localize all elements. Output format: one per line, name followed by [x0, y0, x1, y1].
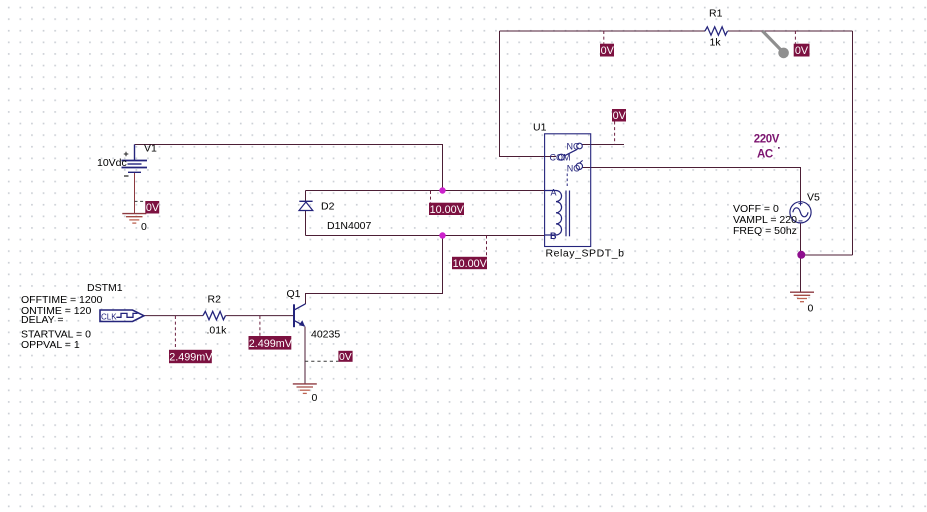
svg-text:V1: V1 [144, 143, 157, 155]
Q1 emitter arrow [299, 320, 305, 326]
wire D2 top horizontal to relay A [306, 190, 545, 192]
svg-text:0: 0 [808, 303, 814, 315]
voltage label 0V at V1 ground [135, 201, 160, 214]
wire node down from bottom horizontal [306, 236, 443, 305]
wire R2 to Q1 base [226, 315, 294, 317]
svg-text:0: 0 [312, 392, 318, 404]
wire V5 bottom to ground [800, 223, 802, 292]
wire right vertical [852, 31, 854, 255]
svg-text:D1N4007: D1N4007 [327, 220, 372, 232]
svg-text:B: B [550, 231, 557, 241]
wire D2 bottom horizontal to relay B [306, 235, 545, 237]
relay armature dashed link [566, 174, 568, 187]
V5 attributes [733, 203, 797, 237]
ground 0 under V1 [122, 214, 146, 224]
relay switch lever [565, 149, 578, 156]
wire DSTM1 to R2 [144, 315, 203, 317]
transistor Q1 [294, 304, 306, 327]
voltage label 2.499mV right [249, 316, 293, 350]
wire bottom right horizontal to V5 node [802, 254, 853, 256]
svg-text:A: A [551, 188, 557, 198]
junction node dot (443,235) [439, 232, 445, 238]
svg-text:DELAY =: DELAY = [21, 314, 64, 326]
svg-text:OFFTIME = 1200: OFFTIME = 1200 [21, 294, 103, 306]
wire V1 bottom to ground [134, 173, 136, 214]
junction node dot (443,190) [439, 187, 445, 193]
ground 0 under Q1 [293, 384, 317, 394]
relay NC contact [567, 141, 583, 151]
probe cursor [763, 31, 789, 58]
voltage label 10.00V lower [452, 236, 488, 270]
svg-text:2.499mV: 2.499mV [249, 338, 293, 350]
wire top horizontal right of R1 [728, 30, 853, 32]
svg-text:220V: 220V [754, 133, 780, 145]
svg-text:NC: NC [567, 141, 580, 151]
svg-text:U1: U1 [533, 122, 547, 134]
svg-text:.01k: .01k [207, 325, 228, 337]
svg-text:V5: V5 [807, 191, 820, 203]
battery V1 [122, 145, 148, 177]
annotation 220V AC [754, 133, 780, 160]
DSTM1 attributes [21, 294, 103, 351]
svg-text:NO: NO [567, 163, 581, 173]
svg-text:Q1: Q1 [287, 288, 301, 300]
digital stimulus DSTM1 [100, 310, 144, 322]
diode D2 [299, 201, 313, 210]
ground 0 under V5 [790, 292, 814, 302]
svg-text:10Vdc: 10Vdc [97, 157, 127, 169]
svg-text:FREQ = 50hz: FREQ = 50hz [733, 225, 797, 237]
resistor R1 [705, 27, 728, 35]
wire relay NO to V5 top [583, 168, 801, 202]
resistor R2 [203, 311, 226, 319]
source V5 [790, 202, 811, 223]
svg-text:0V: 0V [601, 45, 615, 57]
svg-text:10.00V: 10.00V [430, 204, 465, 216]
svg-text:0V: 0V [613, 110, 627, 122]
voltage label 10.00V upper [429, 191, 465, 216]
relay core lines [566, 191, 570, 237]
svg-text:AC: AC [757, 148, 773, 160]
svg-text:2.499mV: 2.499mV [169, 352, 213, 364]
relay COM contact [550, 153, 571, 163]
wire top loop left vertical to relay COM [500, 31, 557, 157]
svg-text:CLK: CLK [101, 313, 117, 322]
relay coil [545, 191, 562, 236]
wire diode branch top stub [305, 191, 307, 202]
svg-text:DSTM1: DSTM1 [87, 282, 123, 294]
wire relay NC stub [582, 144, 624, 146]
voltage label 0V below top wire [600, 31, 615, 57]
wire top horizontal left of R1 [500, 30, 706, 32]
svg-text:10.00V: 10.00V [453, 258, 488, 270]
svg-text:OPPVAL = 1: OPPVAL = 1 [21, 339, 80, 351]
svg-text:0: 0 [141, 221, 147, 233]
wire Q1 emitter to ground [304, 327, 306, 385]
voltage label 0V at Q1 emitter [305, 351, 353, 363]
voltage label 0V at probe [794, 31, 810, 57]
relay NO contact [567, 160, 583, 173]
voltage label 2.499mV left [169, 316, 213, 364]
svg-text:1k: 1k [710, 37, 722, 49]
svg-text:D2: D2 [321, 201, 335, 213]
wire V1 top to corner [135, 145, 443, 191]
svg-text:0V: 0V [339, 352, 352, 363]
voltage label 0V at relay NC [612, 109, 627, 145]
relay U1 box [545, 134, 591, 247]
svg-text:R1: R1 [709, 8, 723, 20]
svg-text:0V: 0V [795, 45, 809, 57]
junction node dot at V5 bottom [797, 251, 805, 259]
svg-text:R2: R2 [208, 294, 222, 306]
svg-text:Relay_SPDT_b: Relay_SPDT_b [546, 247, 625, 259]
wire diode branch bottom stub [305, 211, 307, 236]
svg-text:40235: 40235 [311, 328, 340, 340]
svg-text:0V: 0V [146, 202, 160, 214]
